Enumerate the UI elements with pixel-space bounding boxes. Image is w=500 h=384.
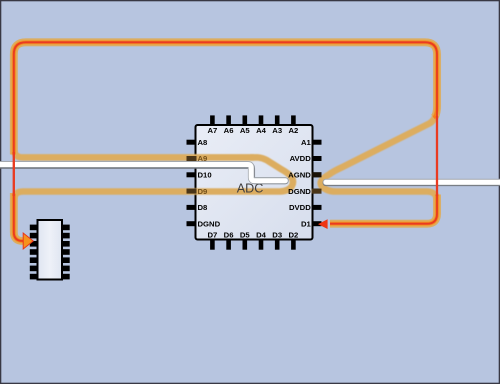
- pin A1: [312, 140, 322, 145]
- pin DGND left: [187, 221, 197, 226]
- pin D8: [187, 205, 197, 210]
- arrowhead into small IC: [23, 233, 33, 249]
- ADC chip U1 body: [196, 125, 313, 240]
- svg-text:A2: A2: [288, 126, 298, 135]
- orange current path segment: bottom-right into D1: [330, 195, 437, 224]
- red return current, exposed right segment crossing the moat: [436, 116, 438, 196]
- svg-text:A5: A5: [240, 126, 251, 135]
- IC U2 pins right (7): [62, 225, 70, 231]
- pin DGND right: [312, 189, 322, 194]
- svg-text:DGND: DGND: [198, 219, 221, 228]
- AGND right pin over tan: [312, 172, 322, 177]
- pin A8: [187, 140, 197, 145]
- svg-text:A4: A4: [256, 126, 267, 135]
- svg-text:D1: D1: [301, 219, 312, 228]
- svg-text:D9: D9: [198, 187, 208, 196]
- pin A3: [275, 115, 280, 125]
- pin A4: [259, 115, 264, 125]
- svg-text:D5: D5: [240, 231, 251, 240]
- pin D2: [291, 240, 296, 249]
- IC U2 pins left (7): [30, 225, 38, 231]
- svg-text:D2: D2: [288, 231, 298, 240]
- pin D3: [275, 240, 280, 249]
- pin D7: [210, 240, 215, 249]
- svg-text:A3: A3: [272, 126, 282, 135]
- svg-text:D7: D7: [207, 231, 217, 240]
- svg-text:DVDD: DVDD: [289, 203, 311, 212]
- svg-text:D6: D6: [224, 231, 234, 240]
- pin A7: [210, 115, 215, 125]
- pin D9: [187, 189, 197, 194]
- svg-text:A1: A1: [301, 138, 312, 147]
- svg-text:A6: A6: [224, 126, 234, 135]
- orange current path segment: bottom-left into IC: [14, 193, 28, 241]
- pin A2: [291, 115, 296, 125]
- pin D10: [187, 172, 197, 177]
- svg-text:A7: A7: [207, 126, 217, 135]
- svg-text:D3: D3: [272, 231, 282, 240]
- DGND right pin shadow under tan: [312, 189, 322, 194]
- pin DVDD: [312, 205, 322, 210]
- red return current, exposed left segment crossing the moat: [13, 152, 15, 196]
- tan trace: inner detour A9 to D9 around moat end, down-left to IC arrow: [14, 157, 293, 241]
- svg-text:AGND: AGND: [288, 171, 311, 180]
- svg-text:DGND: DGND: [288, 187, 311, 196]
- pin D5: [243, 240, 248, 249]
- tan trace: A9 signal route (left corner, top loop, right diagonal to AGND, moat wrap, to D1): [14, 42, 437, 223]
- pin D1: [312, 221, 322, 226]
- pin A9: [187, 156, 197, 161]
- ground plane split, right segment: [326, 179, 500, 186]
- svg-text:D8: D8: [198, 203, 209, 212]
- pin A6: [226, 115, 231, 125]
- pin D4: [259, 240, 264, 249]
- orange current path segment: left vertical, top, right vertical: [14, 42, 437, 154]
- D9 pin shadow under tan: [187, 189, 197, 194]
- arrowhead into D1 pin: [318, 219, 328, 229]
- pin D6: [226, 240, 231, 249]
- svg-text:A8: A8: [198, 138, 209, 147]
- pin A5: [243, 115, 248, 125]
- pin AVDD: [312, 156, 322, 161]
- red return current line (continuous loop): [14, 42, 437, 241]
- ground plane split (white moat), left segment with jog inside chip: [0, 165, 285, 180]
- svg-text:D10: D10: [198, 171, 212, 180]
- A9 pin shadow under tan: [187, 156, 197, 161]
- svg-text:D4: D4: [256, 231, 267, 240]
- small IC U2 body: [38, 220, 63, 280]
- svg-text:AVDD: AVDD: [290, 154, 312, 163]
- pin AGND: [312, 172, 322, 177]
